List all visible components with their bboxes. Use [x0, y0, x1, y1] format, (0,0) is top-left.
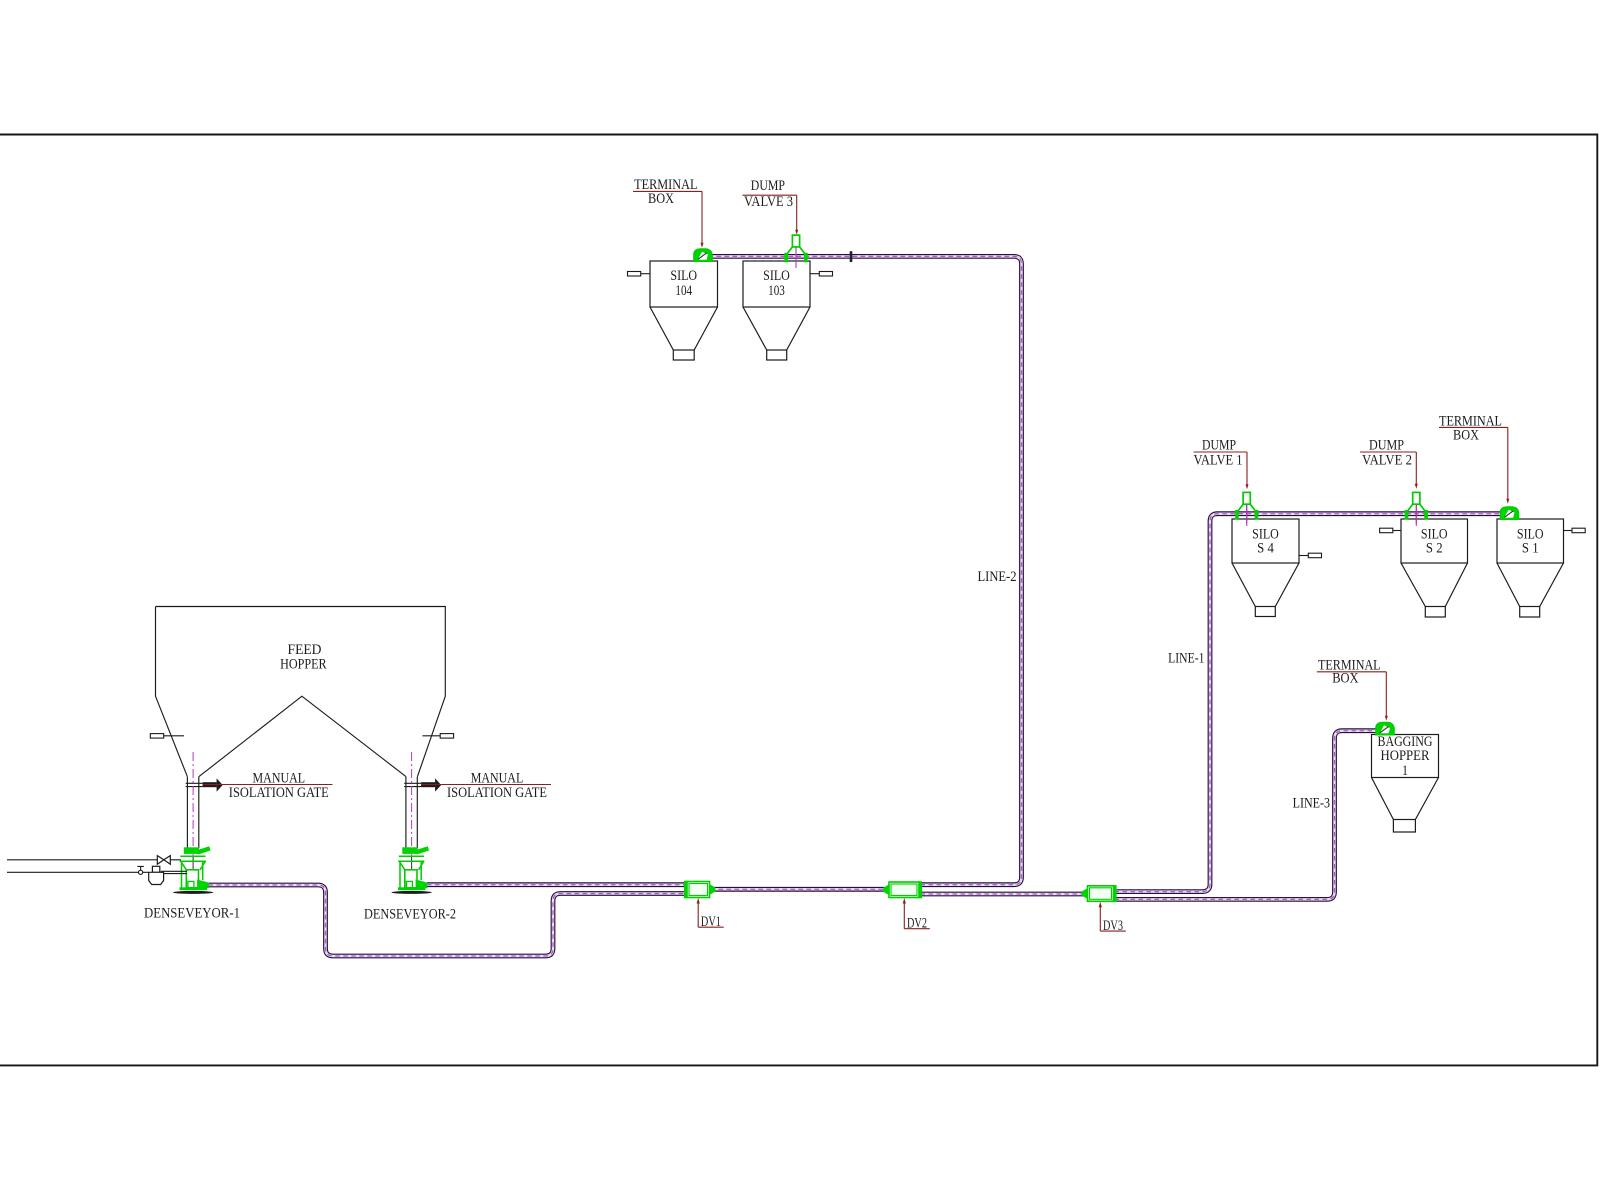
svg-text:SILO: SILO — [763, 268, 790, 284]
label DV3 — [1099, 902, 1126, 934]
svg-text:DUMP: DUMP — [1369, 438, 1404, 454]
label DV1 — [697, 898, 724, 930]
air filter regulator — [149, 866, 164, 884]
dump valve 3 on SILO 103 — [784, 235, 807, 268]
svg-text:DENSEVEYOR-1: DENSEVEYOR-1 — [144, 906, 240, 922]
diverter valve DV2 — [883, 881, 922, 898]
silo SILO S2 — [1401, 519, 1468, 617]
svg-text:BOX: BOX — [1453, 427, 1479, 443]
drawing border frame — [0, 135, 1597, 1066]
SILO 103 level stub — [810, 272, 833, 277]
svg-text:DV1: DV1 — [701, 914, 721, 930]
svg-text:S 1: S 1 — [1522, 541, 1539, 557]
pipe LINE-3 from DV3 lower outlet to BAGGING HOPPER terminal box — [1115, 731, 1378, 900]
terminal box on BAGGING HOPPER 1 — [1376, 722, 1395, 735]
svg-text:VALVE 2: VALVE 2 — [1362, 453, 1412, 469]
feed hopper — [156, 607, 446, 777]
svg-text:DV3: DV3 — [1103, 918, 1123, 934]
svg-text:S 2: S 2 — [1426, 541, 1443, 557]
denseveyor DENSEVEYOR-2 — [391, 752, 432, 894]
silo SILO 103 — [743, 261, 810, 360]
label DUMP VALVE 2 — [1360, 438, 1418, 489]
pipe from DENSEVEYOR-2 to DV1 upper inlet — [427, 882, 686, 887]
diverter valve DV1 — [684, 881, 715, 899]
pipe coupling tick on LINE-2 top run — [850, 251, 853, 262]
label DUMP VALVE 3 — [743, 178, 799, 235]
SILO S4 level stub — [1299, 553, 1322, 558]
denseveyor DENSEVEYOR-1 — [173, 752, 214, 894]
svg-text:VALVE 3: VALVE 3 — [744, 194, 793, 210]
SILO 104 level stub — [628, 272, 651, 277]
feed hopper right level stub — [423, 734, 454, 739]
feed hopper left level stub — [150, 734, 184, 739]
air supply upper line — [7, 859, 181, 861]
pipe LINE-1 from DV3 upper outlet to SILO S1 terminal box — [1115, 514, 1501, 892]
SILO S2 level stub — [1380, 528, 1401, 533]
silo SILO S1 — [1497, 519, 1564, 617]
svg-text:BOX: BOX — [648, 191, 674, 207]
svg-text:DV2: DV2 — [907, 916, 927, 932]
manual isolation gate 1 — [186, 778, 223, 791]
label DV2 — [903, 898, 930, 932]
label TERMINAL BOX (BAGGING HOPPER) — [1317, 658, 1388, 721]
svg-text:LINE-2: LINE-2 — [978, 569, 1017, 585]
svg-text:DUMP: DUMP — [751, 178, 785, 194]
svg-text:LINE-1: LINE-1 — [1168, 651, 1204, 667]
label TERMINAL BOX (SILO S1) — [1439, 413, 1509, 503]
diverter valve DV3 — [1082, 885, 1117, 902]
silo SILO 104 — [650, 261, 718, 360]
pipe LINE-2 from DV2 upper outlet to SILO 104 terminal box — [713, 256, 1022, 884]
pipe from DV2 lower outlet to DV3 inlet — [921, 892, 1087, 897]
svg-text:HOPPER: HOPPER — [1381, 748, 1430, 764]
svg-text:SILO: SILO — [670, 268, 697, 284]
svg-text:104: 104 — [675, 283, 692, 299]
dump valve 2 on SILO S2 — [1405, 492, 1428, 526]
drop pipe from feed hopper to DENSEVEYOR-2 — [406, 777, 417, 848]
terminal box on SILO 104 — [694, 249, 713, 262]
air supply isolation valve (bowtie) — [157, 856, 170, 865]
terminal box on SILO S1 — [1500, 507, 1519, 520]
drop pipe from feed hopper to DENSEVEYOR-1 — [187, 777, 198, 848]
svg-text:VALVE 1: VALVE 1 — [1194, 453, 1243, 469]
pipe from DV1 outlet to DV2 inlet — [711, 887, 888, 892]
pipe from DENSEVEYOR-1 to DV1 lower inlet — [209, 885, 687, 956]
svg-text:DENSEVEYOR-2: DENSEVEYOR-2 — [364, 907, 456, 923]
svg-text:103: 103 — [768, 283, 785, 299]
label TERMINAL BOX (SILO 104) — [633, 177, 704, 248]
svg-text:HOPPER: HOPPER — [280, 656, 327, 672]
silo SILO S4 — [1232, 519, 1299, 617]
svg-text:1: 1 — [1402, 763, 1408, 779]
svg-text:ISOLATION GATE: ISOLATION GATE — [229, 785, 329, 801]
svg-text:DUMP: DUMP — [1202, 438, 1236, 454]
svg-text:LINE-3: LINE-3 — [1293, 796, 1330, 812]
label DUMP VALVE 1 — [1194, 438, 1249, 490]
SILO S1 level stub — [1564, 528, 1586, 533]
svg-text:BOX: BOX — [1332, 671, 1359, 687]
svg-text:S 4: S 4 — [1257, 541, 1274, 557]
label MANUAL ISOLATION GATE (left) — [203, 771, 333, 801]
svg-text:ISOLATION GATE: ISOLATION GATE — [447, 785, 547, 801]
bagging hopper 1 — [1372, 735, 1439, 833]
label MANUAL ISOLATION GATE (right) — [421, 771, 551, 801]
air supply lower line — [7, 871, 187, 873]
small drain valve — [137, 866, 143, 874]
dump valve 1 on SILO S4 — [1235, 492, 1258, 526]
manual isolation gate 2 — [404, 778, 441, 791]
